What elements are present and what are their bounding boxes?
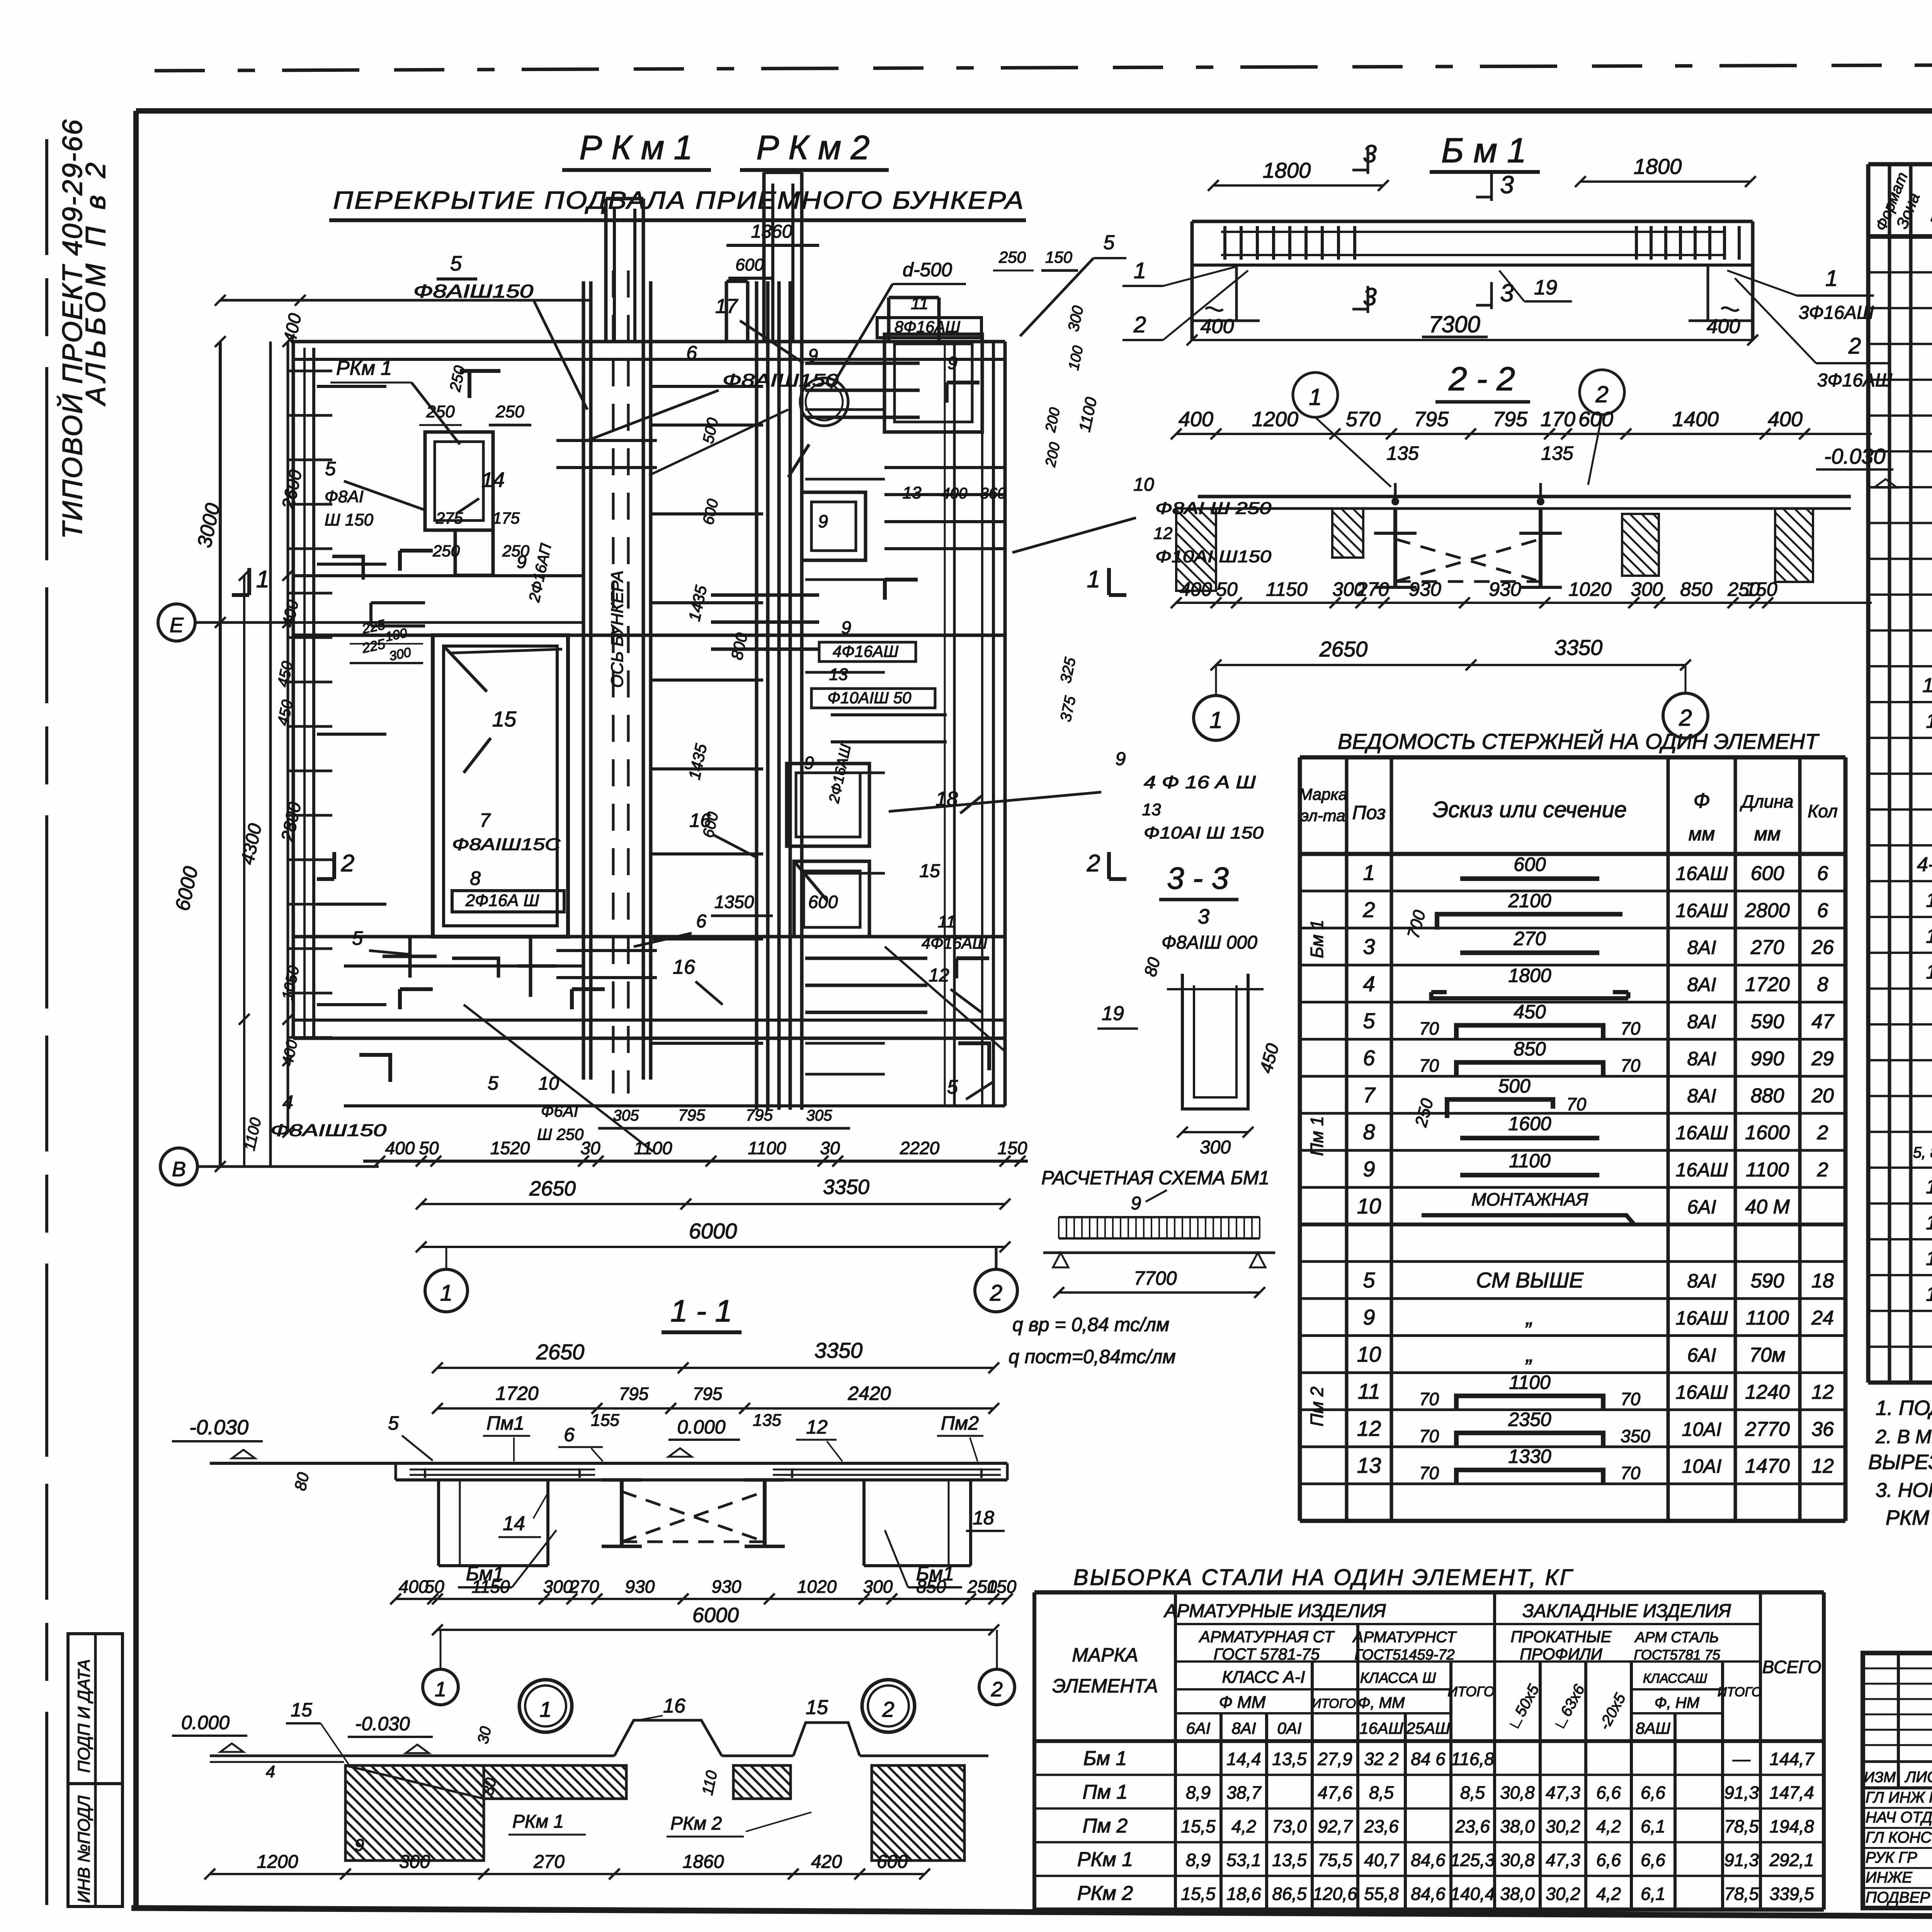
- svg-text:4,2: 4,2: [1596, 1816, 1621, 1836]
- svg-text:„: „: [1526, 1305, 1534, 1329]
- svg-text:1100: 1100: [634, 1138, 672, 1158]
- svg-text:2: 2: [1595, 381, 1608, 407]
- svg-text:250: 250: [1412, 1096, 1437, 1129]
- svg-text:8,9: 8,9: [1186, 1850, 1211, 1870]
- svg-text:Пм1: Пм1: [486, 1412, 524, 1434]
- svg-text:1150: 1150: [1266, 578, 1308, 600]
- svg-text:КЛАССА Ш: КЛАССА Ш: [1360, 1670, 1436, 1686]
- svg-text:990: 990: [1751, 1048, 1784, 1070]
- svg-text:18: 18: [1811, 1270, 1834, 1292]
- svg-text:1: 1: [256, 566, 269, 593]
- svg-text:ЗАКЛАДНЫЕ ИЗДЕЛИЯ: ЗАКЛАДНЫЕ ИЗДЕЛИЯ: [1522, 1601, 1731, 1621]
- svg-text:ИНЖЕ: ИНЖЕ: [1866, 1869, 1913, 1886]
- svg-text:1800: 1800: [1508, 965, 1551, 986]
- svg-text:38,0: 38,0: [1500, 1816, 1535, 1836]
- svg-text:600: 600: [808, 892, 838, 912]
- svg-text:15: 15: [1926, 925, 1932, 947]
- svg-text:2770: 2770: [1745, 1418, 1790, 1440]
- svg-text:0.000: 0.000: [181, 1712, 230, 1733]
- svg-text:Б м 1: Б м 1: [1441, 131, 1526, 170]
- svg-text:125,3: 125,3: [1450, 1850, 1495, 1870]
- svg-text:250: 250: [998, 248, 1026, 266]
- svg-text:47: 47: [1811, 1010, 1835, 1033]
- svg-text:НАЧ ОТД: НАЧ ОТД: [1866, 1809, 1932, 1826]
- svg-text:2 - 2: 2 - 2: [1448, 361, 1515, 398]
- svg-text:400: 400: [385, 1138, 415, 1158]
- svg-text:3: 3: [1198, 905, 1209, 928]
- svg-text:135: 135: [1386, 442, 1419, 464]
- svg-text:2650: 2650: [529, 1177, 576, 1200]
- svg-text:14,4: 14,4: [1226, 1749, 1261, 1769]
- svg-text:19: 19: [1102, 1002, 1124, 1025]
- svg-text:2: 2: [1817, 1159, 1828, 1181]
- svg-text:Р К м 2: Р К м 2: [756, 128, 869, 167]
- svg-text:23,6: 23,6: [1364, 1816, 1399, 1836]
- svg-text:2: 2: [990, 1281, 1002, 1306]
- svg-text:12: 12: [1811, 1455, 1834, 1478]
- svg-text:250: 250: [426, 402, 455, 421]
- svg-text:1: 1: [1209, 707, 1222, 733]
- svg-text:1100: 1100: [1746, 1307, 1789, 1329]
- svg-text:5: 5: [947, 1076, 958, 1098]
- svg-text:ЭЛЕМЕНТА: ЭЛЕМЕНТА: [1052, 1675, 1158, 1697]
- svg-text:16АШ: 16АШ: [1676, 1307, 1728, 1329]
- svg-text:1 - 1: 1 - 1: [670, 1294, 732, 1328]
- svg-text:7300: 7300: [1429, 311, 1480, 337]
- svg-text:Ф8АIШ15С: Ф8АIШ15С: [452, 835, 561, 854]
- svg-text:Ф ММ: Ф ММ: [1219, 1693, 1266, 1712]
- svg-text:9: 9: [517, 552, 527, 572]
- svg-text:10: 10: [538, 1073, 559, 1094]
- svg-text:375: 375: [1057, 694, 1079, 723]
- svg-text:9: 9: [818, 511, 828, 531]
- svg-text:Пм 1: Пм 1: [1307, 1116, 1327, 1156]
- svg-text:91,3: 91,3: [1724, 1782, 1759, 1803]
- svg-text:ВЕДОМОСТЬ СТЕРЖНЕЙ НА ОДИН: ВЕДОМОСТЬ СТЕРЖНЕЙ НА ОДИН ЭЛЕМЕНТ: [1338, 729, 1820, 753]
- svg-text:150: 150: [1045, 248, 1073, 266]
- svg-text:30,2: 30,2: [1546, 1884, 1580, 1904]
- svg-text:38,0: 38,0: [1500, 1884, 1535, 1904]
- svg-text:1800: 1800: [1263, 158, 1311, 182]
- svg-text:155: 155: [591, 1411, 619, 1430]
- svg-text:110: 110: [699, 1769, 721, 1797]
- svg-text:9: 9: [1131, 1193, 1141, 1214]
- svg-text:5: 5: [1104, 231, 1115, 254]
- svg-text:144,7: 144,7: [1769, 1749, 1815, 1769]
- svg-text:5, 8-13: 5, 8-13: [1913, 1144, 1932, 1161]
- svg-text:Е: Е: [170, 614, 184, 637]
- svg-text:25АШ: 25АШ: [1406, 1719, 1450, 1737]
- svg-text:РКм 2: РКм 2: [1077, 1882, 1133, 1905]
- svg-text:6,6: 6,6: [1596, 1782, 1621, 1803]
- svg-text:500: 500: [1498, 1075, 1531, 1097]
- svg-text:1860: 1860: [683, 1852, 724, 1872]
- svg-text:1800: 1800: [1634, 154, 1682, 179]
- svg-text:30: 30: [820, 1138, 840, 1158]
- svg-text:400: 400: [279, 311, 305, 345]
- svg-text:850: 850: [1680, 578, 1713, 600]
- svg-text:795: 795: [678, 1106, 706, 1124]
- svg-text:8АI: 8АI: [1687, 1270, 1716, 1292]
- svg-text:4 Ф 16 А Ш: 4 Ф 16 А Ш: [1144, 772, 1256, 792]
- svg-text:Ф8АIШ150: Ф8АIШ150: [413, 281, 533, 302]
- svg-text:Поз: Поз: [1352, 802, 1386, 823]
- svg-text:9: 9: [1363, 1157, 1375, 1181]
- svg-text:150: 150: [987, 1577, 1017, 1597]
- svg-text:-20х5: -20х5: [1596, 1690, 1629, 1733]
- svg-text:мм: мм: [1689, 823, 1715, 845]
- svg-text:14: 14: [503, 1512, 525, 1535]
- svg-text:РУК ГР: РУК ГР: [1866, 1849, 1917, 1866]
- svg-text:∟63х6: ∟63х6: [1550, 1682, 1588, 1733]
- svg-text:53,1: 53,1: [1226, 1850, 1261, 1870]
- svg-text:1: 1: [1309, 384, 1321, 410]
- svg-text:6: 6: [564, 1424, 575, 1446]
- svg-text:12: 12: [929, 965, 949, 986]
- svg-text:12: 12: [1154, 524, 1173, 543]
- svg-text:4-10: 4-10: [1917, 853, 1932, 876]
- svg-text:400: 400: [942, 485, 968, 502]
- svg-text:600: 600: [700, 497, 722, 526]
- svg-text:3: 3: [1500, 171, 1514, 199]
- svg-text:12: 12: [1811, 1381, 1834, 1403]
- svg-text:13,5: 13,5: [1272, 1749, 1307, 1769]
- svg-text:70: 70: [1419, 1019, 1439, 1039]
- svg-text:450: 450: [1514, 1001, 1546, 1023]
- svg-text:ГОСТ 5781-75: ГОСТ 5781-75: [1214, 1645, 1320, 1663]
- svg-text:КЛАСС А-I: КЛАСС А-I: [1222, 1668, 1305, 1687]
- svg-text:2100: 2100: [1508, 890, 1551, 912]
- svg-text:1720: 1720: [495, 1383, 538, 1404]
- svg-text:d-500: d-500: [903, 259, 952, 281]
- svg-text:70: 70: [1419, 1426, 1439, 1446]
- svg-text:4: 4: [266, 1762, 275, 1781]
- svg-text:Ф8АIШ150: Ф8АIШ150: [723, 370, 839, 390]
- svg-text:16: 16: [1926, 1211, 1932, 1234]
- svg-text:12: 12: [806, 1416, 828, 1438]
- svg-text:ИТОГО: ИТОГО: [1718, 1685, 1762, 1699]
- svg-text:590: 590: [1751, 1270, 1784, 1292]
- svg-text:q вр = 0,84 тс/лм: q вр = 0,84 тс/лм: [1012, 1314, 1169, 1335]
- svg-text:5: 5: [388, 1412, 399, 1434]
- svg-text:600: 600: [1578, 408, 1613, 431]
- svg-text:6,1: 6,1: [1641, 1816, 1665, 1836]
- svg-text:3350: 3350: [1554, 635, 1603, 660]
- svg-text:15,5: 15,5: [1181, 1816, 1216, 1836]
- svg-text:ОСЬ БУНКЕРА: ОСЬ БУНКЕРА: [608, 571, 627, 688]
- svg-text:147,4: 147,4: [1769, 1782, 1814, 1803]
- svg-text:225: 225: [360, 636, 387, 656]
- svg-text:15: 15: [806, 1696, 828, 1719]
- svg-text:13,5: 13,5: [1272, 1850, 1307, 1870]
- svg-text:500: 500: [700, 416, 722, 445]
- svg-text:300: 300: [1631, 578, 1663, 600]
- svg-text:Бм 1: Бм 1: [1307, 920, 1327, 958]
- svg-text:18: 18: [935, 788, 958, 810]
- svg-text:930: 930: [625, 1577, 655, 1597]
- svg-text:—: —: [1732, 1749, 1751, 1769]
- svg-text:170: 170: [1541, 408, 1575, 431]
- svg-text:250: 250: [447, 364, 469, 393]
- svg-text:1100: 1100: [1746, 1159, 1789, 1181]
- svg-text:9: 9: [1116, 749, 1126, 769]
- svg-text:2: 2: [1679, 705, 1692, 731]
- svg-text:10: 10: [1357, 1194, 1381, 1218]
- svg-text:6: 6: [686, 342, 697, 364]
- svg-text:„: „: [1526, 1342, 1534, 1366]
- svg-text:∟50х5: ∟50х5: [1505, 1682, 1543, 1733]
- svg-text:ИЗМ: ИЗМ: [1864, 1769, 1896, 1786]
- svg-text:15: 15: [919, 861, 940, 881]
- svg-text:15: 15: [1926, 1176, 1932, 1198]
- svg-text:3: 3: [1363, 140, 1377, 168]
- svg-text:1: 1: [435, 1678, 446, 1701]
- svg-text:6,6: 6,6: [1641, 1782, 1665, 1803]
- svg-text:116,8: 116,8: [1451, 1749, 1494, 1769]
- svg-text:84,6: 84,6: [1411, 1884, 1446, 1904]
- svg-text:270: 270: [1513, 928, 1546, 949]
- svg-text:7: 7: [1363, 1083, 1376, 1107]
- svg-text:300: 300: [399, 1852, 430, 1872]
- svg-text:18: 18: [973, 1507, 994, 1529]
- svg-text:1: 1: [1134, 258, 1146, 283]
- svg-text:135: 135: [753, 1411, 781, 1430]
- svg-text:4: 4: [282, 1092, 293, 1113]
- svg-text:13: 13: [1357, 1453, 1381, 1478]
- svg-text:Длина: Длина: [1740, 791, 1794, 811]
- svg-text:175: 175: [493, 509, 520, 527]
- svg-text:600: 600: [877, 1852, 908, 1872]
- svg-text:3350: 3350: [823, 1175, 869, 1199]
- svg-text:Ш 150: Ш 150: [325, 510, 374, 529]
- svg-text:70м: 70м: [1749, 1344, 1786, 1366]
- svg-text:5: 5: [1363, 1268, 1375, 1292]
- svg-text:270: 270: [569, 1577, 599, 1597]
- svg-text:Пм 2: Пм 2: [1083, 1815, 1128, 1837]
- svg-text:16АШ: 16АШ: [1676, 862, 1728, 884]
- svg-text:30,8: 30,8: [1500, 1782, 1535, 1803]
- svg-text:Ф8АIШ 000: Ф8АIШ 000: [1162, 932, 1257, 953]
- svg-text:16: 16: [673, 956, 695, 978]
- svg-text:Кол: Кол: [1808, 801, 1838, 821]
- svg-text:1150: 1150: [472, 1577, 510, 1597]
- svg-text:8Ф16АШ: 8Ф16АШ: [895, 318, 960, 336]
- svg-text:24: 24: [1811, 1307, 1834, 1329]
- svg-text:600: 600: [1514, 854, 1546, 875]
- svg-text:2: 2: [1087, 850, 1100, 877]
- svg-text:6: 6: [1363, 1046, 1375, 1070]
- svg-text:2220: 2220: [900, 1138, 940, 1158]
- svg-text:2350: 2350: [1508, 1408, 1551, 1430]
- svg-text:47,6: 47,6: [1318, 1782, 1352, 1803]
- svg-text:150: 150: [1745, 578, 1777, 600]
- svg-text:Ф8АIШ150: Ф8АIШ150: [270, 1121, 387, 1140]
- svg-text:11: 11: [911, 294, 929, 313]
- svg-text:0.000: 0.000: [677, 1416, 725, 1438]
- svg-text:-0.030: -0.030: [189, 1416, 248, 1439]
- svg-text:СМ ВЫШЕ: СМ ВЫШЕ: [1476, 1268, 1584, 1292]
- svg-text:120,6: 120,6: [1313, 1884, 1357, 1904]
- svg-text:9: 9: [947, 353, 957, 373]
- svg-text:АРМАТУРНСТ: АРМАТУРНСТ: [1352, 1629, 1457, 1646]
- svg-text:150: 150: [998, 1138, 1027, 1158]
- svg-text:8,9: 8,9: [1186, 1782, 1211, 1803]
- svg-text:Эскиз или сечение: Эскиз или сечение: [1433, 797, 1627, 822]
- svg-text:600: 600: [1751, 862, 1784, 884]
- svg-text:16: 16: [663, 1695, 685, 1717]
- svg-text:1: 1: [440, 1281, 452, 1306]
- svg-text:Р К м 1: Р К м 1: [579, 128, 692, 167]
- svg-text:Ф8АI Ш 250: Ф8АI Ш 250: [1155, 499, 1272, 518]
- svg-text:18,6: 18,6: [1226, 1884, 1261, 1904]
- svg-text:400: 400: [279, 598, 302, 629]
- svg-text:17: 17: [715, 295, 738, 318]
- svg-text:47,3: 47,3: [1546, 1782, 1580, 1803]
- svg-text:1: 1: [539, 1697, 551, 1721]
- svg-text:5: 5: [325, 458, 336, 480]
- svg-text:мм: мм: [1754, 823, 1781, 845]
- svg-text:270: 270: [1356, 578, 1389, 600]
- svg-text:250: 250: [495, 402, 524, 421]
- svg-text:8: 8: [470, 867, 481, 889]
- svg-text:1600: 1600: [1745, 1122, 1790, 1144]
- svg-text:Ф8АI: Ф8АI: [325, 487, 364, 506]
- svg-text:АРМАТУРНЫЕ ИЗДЕЛИЯ: АРМАТУРНЫЕ ИЗДЕЛИЯ: [1163, 1601, 1386, 1621]
- svg-text:91,3: 91,3: [1724, 1850, 1759, 1870]
- svg-text:Ф, НМ: Ф, НМ: [1655, 1694, 1700, 1711]
- svg-text:2: 2: [991, 1678, 1003, 1701]
- svg-text:13: 13: [1142, 800, 1161, 819]
- svg-text:ИТОГО: ИТОГО: [1447, 1684, 1494, 1699]
- svg-text:16АШ: 16АШ: [1676, 1381, 1728, 1403]
- svg-text:400: 400: [399, 1577, 429, 1597]
- svg-text:73,0: 73,0: [1272, 1816, 1307, 1836]
- svg-text:6АI: 6АI: [1687, 1196, 1716, 1218]
- svg-text:2: 2: [1848, 333, 1861, 359]
- svg-text:6000: 6000: [689, 1219, 737, 1243]
- svg-text:400: 400: [279, 1038, 301, 1067]
- svg-text:ПРОФИЛИ: ПРОФИЛИ: [1520, 1645, 1602, 1663]
- svg-text:2Ф16АП: 2Ф16АП: [526, 542, 555, 604]
- svg-text:339,5: 339,5: [1769, 1884, 1814, 1904]
- svg-text:Бм 1: Бм 1: [1083, 1747, 1127, 1770]
- svg-text:70: 70: [1621, 1055, 1641, 1075]
- svg-text:70: 70: [1419, 1055, 1439, 1075]
- svg-text:930: 930: [1409, 578, 1441, 600]
- svg-text:15,5: 15,5: [1181, 1884, 1216, 1904]
- svg-text:9: 9: [841, 617, 851, 638]
- svg-text:эл-та: эл-та: [1301, 806, 1345, 825]
- svg-text:36: 36: [1811, 1418, 1834, 1440]
- svg-text:70: 70: [1419, 1463, 1439, 1483]
- svg-text:6АI: 6АI: [1186, 1719, 1210, 1737]
- svg-text:В: В: [172, 1158, 186, 1181]
- svg-text:Ф: Ф: [1694, 789, 1710, 812]
- svg-text:30,8: 30,8: [1500, 1850, 1535, 1870]
- svg-text:250: 250: [432, 542, 460, 560]
- svg-text:Марка: Марка: [1299, 785, 1347, 803]
- svg-text:1020: 1020: [1568, 578, 1611, 600]
- svg-text:30: 30: [474, 1725, 495, 1745]
- svg-text:Поз: Поз: [1926, 193, 1932, 229]
- svg-text:1100: 1100: [1509, 1150, 1551, 1172]
- svg-text:Пм2: Пм2: [941, 1412, 979, 1434]
- svg-text:795: 795: [693, 1384, 723, 1404]
- svg-text:850: 850: [917, 1577, 946, 1597]
- svg-text:40 М: 40 М: [1745, 1196, 1790, 1218]
- svg-text:8,5: 8,5: [1369, 1782, 1394, 1803]
- svg-text:8,5: 8,5: [1460, 1782, 1485, 1803]
- svg-text:70: 70: [1566, 1094, 1587, 1114]
- svg-text:300: 300: [863, 1577, 893, 1597]
- svg-text:-0.030: -0.030: [355, 1713, 410, 1735]
- svg-text:3: 3: [1500, 279, 1514, 307]
- svg-text:200: 200: [1043, 441, 1063, 469]
- svg-text:ЛИСТ: ЛИСТ: [1904, 1769, 1932, 1786]
- svg-text:930: 930: [1489, 578, 1521, 600]
- svg-text:5: 5: [450, 252, 462, 275]
- svg-text:1100: 1100: [748, 1138, 786, 1158]
- svg-text:3Ф16АШ: 3Ф16АШ: [1799, 303, 1874, 323]
- svg-text:16АШ: 16АШ: [1676, 1159, 1728, 1181]
- svg-text:30: 30: [580, 1138, 600, 1158]
- svg-text:92,7: 92,7: [1318, 1816, 1353, 1836]
- svg-text:700: 700: [1404, 908, 1429, 940]
- svg-text:795: 795: [1414, 408, 1449, 431]
- svg-text:ГЛ КОНСТР: ГЛ КОНСТР: [1866, 1829, 1932, 1846]
- svg-text:100: 100: [384, 626, 408, 645]
- svg-text:17: 17: [1926, 1247, 1932, 1270]
- svg-text:-0.030: -0.030: [1824, 444, 1886, 468]
- svg-text:32 2: 32 2: [1364, 1749, 1399, 1769]
- svg-text:2: 2: [882, 1697, 894, 1721]
- svg-text:16: 16: [1926, 961, 1932, 983]
- svg-text:2: 2: [1133, 312, 1146, 337]
- svg-text:15: 15: [291, 1699, 312, 1721]
- svg-text:ПОДВЕР: ПОДВЕР: [1866, 1889, 1930, 1906]
- svg-text:20: 20: [1811, 1085, 1834, 1107]
- svg-text:ИНВ №ПОДЛ: ИНВ №ПОДЛ: [75, 1795, 94, 1903]
- svg-text:АРМАТУРНАЯ СТ: АРМАТУРНАЯ СТ: [1198, 1628, 1335, 1646]
- svg-text:8АI: 8АI: [1687, 937, 1716, 958]
- svg-text:80: 80: [291, 1471, 313, 1492]
- svg-text:9: 9: [804, 753, 814, 773]
- svg-text:70: 70: [1621, 1389, 1641, 1409]
- svg-text:АРМ СТАЛЬ: АРМ СТАЛЬ: [1634, 1629, 1719, 1646]
- svg-text:1720: 1720: [1745, 973, 1790, 996]
- svg-text:2: 2: [341, 850, 354, 877]
- svg-text:350: 350: [1621, 1426, 1650, 1446]
- svg-text:19: 19: [1534, 276, 1557, 299]
- svg-text:13: 13: [903, 483, 922, 502]
- svg-text:1240: 1240: [1745, 1381, 1790, 1403]
- svg-text:16АШ: 16АШ: [1676, 1122, 1728, 1144]
- svg-text:10АI: 10АI: [1682, 1418, 1722, 1440]
- svg-text:9: 9: [355, 1836, 364, 1855]
- svg-text:2650: 2650: [1319, 637, 1368, 661]
- svg-text:4Ф16АШ: 4Ф16АШ: [922, 934, 987, 952]
- svg-text:1470: 1470: [1745, 1455, 1790, 1478]
- svg-text:0АI: 0АI: [1277, 1719, 1301, 1737]
- svg-text:600: 600: [735, 255, 764, 274]
- svg-text:Ф10АI Ш 150: Ф10АI Ш 150: [1144, 823, 1264, 842]
- svg-text:795: 795: [1493, 408, 1528, 431]
- svg-text:23,6: 23,6: [1455, 1816, 1490, 1836]
- svg-text:1: 1: [1087, 566, 1100, 593]
- svg-text:30,2: 30,2: [1546, 1816, 1580, 1836]
- svg-text:325: 325: [1057, 656, 1079, 685]
- svg-text:50: 50: [1216, 578, 1238, 600]
